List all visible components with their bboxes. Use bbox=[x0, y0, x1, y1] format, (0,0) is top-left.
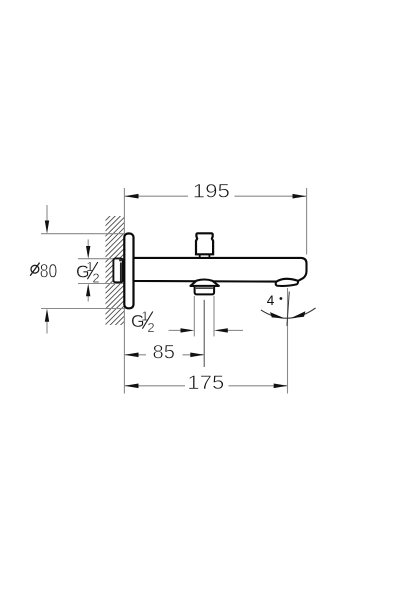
dim 85 line bbox=[125, 354, 146, 356]
dim 195 right extension line bbox=[306, 188, 308, 255]
svg-text:195: 195 bbox=[193, 181, 230, 203]
G1/2 left extension line bottom bbox=[78, 283, 124, 285]
4 deg arc arrowhead right bbox=[291, 311, 306, 318]
svg-text:175: 175 bbox=[187, 372, 224, 394]
aerator at tip bbox=[276, 279, 298, 286]
G1/2 left extension line top bbox=[78, 258, 124, 260]
dia 80 extension line bottom bbox=[41, 308, 124, 310]
dia 80 arrow bottom bbox=[46, 321, 48, 334]
dim 175 line bbox=[125, 385, 185, 387]
dim 195 line bbox=[125, 195, 188, 197]
dia 80 extension line top bbox=[41, 233, 124, 235]
G1/2 bottom arrow left bbox=[169, 329, 182, 331]
knob stem bbox=[199, 255, 201, 258]
spout body bbox=[134, 258, 307, 282]
svg-text:2: 2 bbox=[92, 271, 99, 286]
4 deg tilted axis line bbox=[287, 292, 289, 326]
dim 175 right extension line bbox=[287, 288, 289, 394]
svg-text:4: 4 bbox=[267, 293, 275, 308]
svg-text:85: 85 bbox=[153, 342, 176, 364]
4 deg arc arrowhead left bbox=[270, 312, 285, 318]
wall flange bbox=[124, 234, 133, 309]
4 deg arc bbox=[261, 308, 316, 318]
diverter knob bbox=[196, 233, 213, 254]
dia 80 arrow top bbox=[46, 205, 48, 222]
outlet thread line left bbox=[193, 296, 195, 337]
G1/2 left label bbox=[76, 259, 100, 285]
G1/2 left arrow top bbox=[87, 239, 89, 247]
G1/2 bottom arrow right bbox=[227, 329, 243, 331]
wall hatching bbox=[88, 200, 126, 368]
G1/2 bottom label bbox=[131, 309, 155, 335]
outlet thread line right bbox=[213, 296, 215, 337]
G1/2 left arrow bottom bbox=[87, 296, 89, 302]
outlet center line bbox=[203, 300, 205, 367]
svg-text:80: 80 bbox=[40, 261, 58, 283]
hand shower outlet dome bbox=[190, 280, 219, 286]
dia 80 label bbox=[30, 261, 57, 283]
outlet nut bbox=[195, 287, 215, 295]
svg-text:2: 2 bbox=[147, 320, 154, 335]
inlet connector behind wall bbox=[113, 258, 122, 282]
wall face / left extension line bbox=[123, 188, 125, 394]
